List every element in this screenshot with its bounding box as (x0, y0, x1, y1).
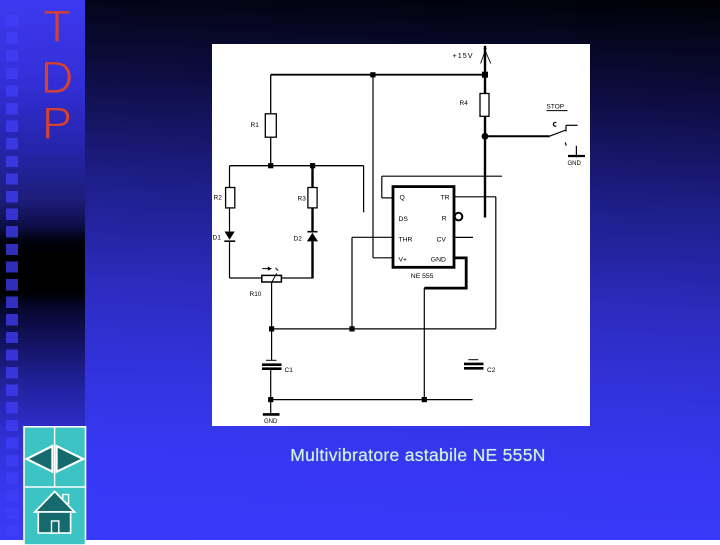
wire Q to IC (382, 197, 393, 199)
wire pot right (281, 277, 313, 279)
svg-text:DS: DS (399, 216, 409, 223)
wire GND pin path thick (424, 258, 466, 288)
wire R2-D1 (229, 208, 231, 231)
node junction rail2/R1 (268, 163, 273, 168)
wire GND net vertical (423, 288, 425, 400)
home roof (35, 492, 75, 513)
wire R4 top thick (484, 75, 486, 94)
wire V+ vertical (372, 75, 374, 258)
pin R bubble (455, 213, 463, 221)
svg-text:THR: THR (399, 236, 413, 243)
wire R2 top (229, 166, 231, 188)
wire CV stub (454, 236, 473, 238)
wire C1 bottom (270, 370, 272, 414)
svg-text:C2: C2 (487, 367, 496, 374)
icon block background (24, 427, 86, 545)
filmstrip squares (6, 15, 18, 540)
home body (38, 512, 70, 533)
navigation icons (20, 425, 100, 545)
wire R4 bottom thick (484, 116, 486, 136)
svg-text:R2: R2 (214, 195, 223, 202)
diode D1 (225, 232, 235, 240)
resistor R4 (480, 94, 489, 117)
wire horizontal rail 2 (230, 165, 364, 167)
resistor R1 (265, 114, 276, 137)
svg-text:STOP: STOP (547, 104, 565, 111)
wire THR to IC (352, 236, 393, 238)
node junction top rail / R4 (482, 72, 488, 78)
wire THR vertical (351, 237, 353, 329)
wire horizontal TR net (272, 328, 496, 330)
potentiometer R10 (262, 275, 282, 282)
capacitor C1 (266, 359, 277, 361)
arrow left (27, 446, 53, 472)
svg-text:CV: CV (437, 236, 447, 243)
diode D2 (pointing up) (308, 231, 318, 233)
svg-text:Q: Q (400, 195, 405, 202)
svg-text:GND: GND (264, 419, 278, 425)
home chimney (63, 495, 69, 504)
node junction pot/C1 (269, 326, 274, 331)
wire R1 bottom (270, 137, 272, 166)
resistor R2 (226, 188, 235, 208)
wire D2 bottom thick (311, 241, 313, 278)
resistor R3 (308, 188, 317, 208)
white schematic panel (212, 44, 590, 426)
ground symbol switch (575, 146, 577, 158)
wire to switch (485, 135, 550, 137)
svg-text:R3: R3 (298, 196, 307, 203)
wire pot bottom (271, 282, 273, 329)
svg-text:R10: R10 (250, 291, 262, 298)
svg-text:R4: R4 (460, 100, 469, 107)
wire V+ to IC (373, 257, 393, 259)
node junction bottom left (268, 397, 273, 402)
divider vertical (54, 427, 56, 487)
caption (0, 445, 720, 466)
svg-text:D2: D2 (294, 236, 303, 243)
capacitor C2 (468, 359, 478, 361)
wire to pot left (230, 277, 262, 279)
svg-text:GND: GND (431, 257, 446, 264)
op-amp U1 NE555 box (393, 187, 454, 268)
wire R3 top (thick) (311, 166, 313, 188)
svg-text:GND: GND (568, 161, 582, 167)
wire TR to IC (454, 196, 496, 198)
ground symbol bottom (263, 413, 280, 416)
node junction THR (349, 326, 354, 331)
power arrow +15V (453, 46, 491, 75)
left sidebar column (0, 0, 85, 540)
svg-text:NE 555: NE 555 (411, 273, 434, 280)
wire DS dead-end (363, 166, 365, 213)
svg-text:V+: V+ (399, 256, 408, 263)
wire top +15V rail (271, 74, 485, 76)
TDP letters (0, 0, 120, 160)
wire bottom rail (271, 399, 473, 401)
svg-text:+15V: +15V (453, 51, 474, 60)
wire D1 bottom (229, 241, 231, 278)
svg-text:R1: R1 (251, 122, 260, 129)
wire Q top horizontal (382, 175, 502, 177)
wire R3-D2 thick (311, 208, 313, 231)
svg-text:C1: C1 (285, 367, 294, 374)
switch STOP (550, 122, 578, 145)
node junction R4/switch (482, 133, 489, 140)
node junction top rail / V+ branch (370, 72, 375, 77)
home door (52, 521, 59, 533)
svg-text:R: R (442, 215, 447, 222)
wire TR vertical (495, 197, 497, 329)
wire C1 top (271, 329, 273, 360)
node junction bottom right (422, 397, 427, 402)
divider horizontal (24, 486, 86, 488)
wire R1 top (270, 75, 272, 114)
wire reset branch thick (484, 136, 486, 217)
arrow right (57, 446, 84, 472)
svg-text:D1: D1 (213, 235, 222, 242)
node junction rail2/R3 (310, 163, 315, 168)
wire Q vertical (381, 176, 383, 198)
svg-text:TR: TR (441, 195, 450, 202)
